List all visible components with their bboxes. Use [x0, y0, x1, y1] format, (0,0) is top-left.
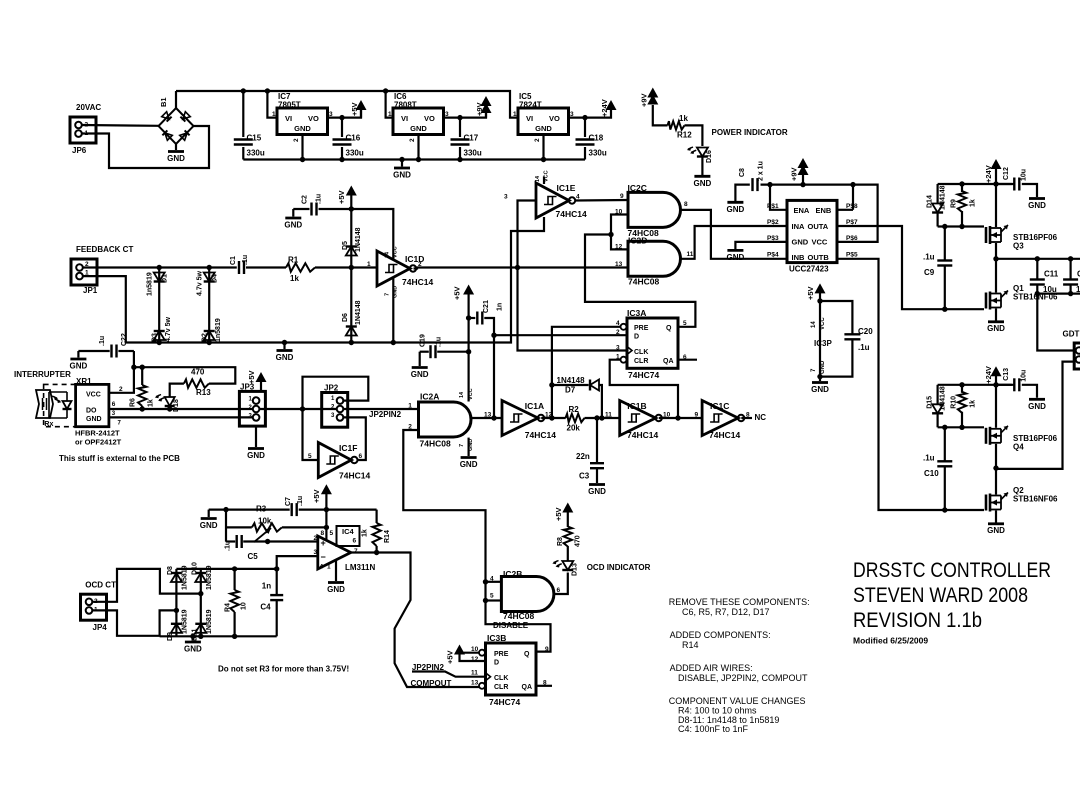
inverter IC1C 74HC14 [702, 401, 738, 436]
svg-text:+24V: +24V [984, 165, 993, 183]
wire IC3A CLK from feedback [518, 268, 628, 351]
wire R1 to IC1D [315, 266, 377, 268]
wire feedback to IC1E input [518, 201, 537, 268]
inverter IC1F 74HC14 [318, 443, 351, 478]
svg-text:VCC: VCC [393, 246, 399, 258]
wire JP6 pin1 to bridge right [82, 126, 209, 168]
power +24V arrow [606, 100, 617, 110]
svg-text:VI: VI [285, 114, 292, 123]
svg-text:VO: VO [549, 114, 560, 123]
svg-text:1n: 1n [262, 582, 271, 591]
svg-text:C11: C11 [1044, 270, 1059, 279]
svg-text:VCC: VCC [544, 170, 550, 182]
svg-text:+5V: +5V [554, 507, 563, 521]
svg-text:C4: C4 [260, 603, 271, 612]
svg-text:1: 1 [331, 396, 335, 402]
svg-text:DO: DO [86, 408, 97, 415]
svg-text:FEEDBACK CT: FEEDBACK CT [76, 245, 133, 254]
wire JP4 pin1 to D8/D9 mid [92, 610, 176, 635]
wire bus to IC6 input [386, 91, 393, 118]
svg-text:GND: GND [327, 585, 345, 594]
svg-text:IC2A: IC2A [420, 392, 439, 402]
diode D9 1N5819 [175, 610, 177, 636]
capacitor C16 330u [341, 118, 343, 137]
power +5V arrow above C2 [350, 193, 352, 209]
svg-text:Q3: Q3 [1013, 242, 1024, 251]
capacitor C4 1n [276, 569, 278, 595]
svg-text:5: 5 [330, 530, 334, 537]
svg-text:VI: VI [401, 114, 408, 123]
capacitor C19 .1u [419, 352, 421, 366]
svg-text:6: 6 [112, 401, 116, 408]
svg-text:IC1F: IC1F [339, 443, 357, 453]
svg-text:GND: GND [294, 124, 311, 133]
svg-text:C5: C5 [248, 552, 259, 561]
svg-text:GND: GND [535, 124, 552, 133]
dashed external box [44, 384, 76, 426]
wire XR1 GND to JP3 [109, 416, 253, 418]
svg-text:8: 8 [321, 530, 325, 537]
svg-text:R10: R10 [951, 396, 958, 409]
wire feedback signal line [83, 266, 237, 268]
svg-text:P$5: P$5 [846, 252, 858, 259]
svg-text:7824T: 7824T [519, 101, 542, 110]
svg-text:1k: 1k [290, 274, 299, 283]
svg-text:74HC14: 74HC14 [556, 209, 587, 219]
svg-text:.1u: .1u [297, 496, 304, 506]
svg-text:74HC14: 74HC14 [627, 430, 658, 440]
regulator IC7 7805T [277, 108, 328, 135]
resistor R2 20k [566, 414, 585, 422]
svg-text:DISABLE, JP2PIN2, COMPOUT: DISABLE, JP2PIN2, COMPOUT [678, 673, 808, 683]
power +9V arrow indicator [647, 88, 658, 98]
svg-text:IC2C: IC2C [628, 183, 647, 193]
svg-text:1: 1 [367, 261, 371, 268]
resistor R10 1k [961, 385, 963, 393]
svg-text:7805T: 7805T [278, 101, 301, 110]
mosfet Q4 STB16PF06 [995, 385, 997, 428]
diode D15 1N4148 [936, 385, 938, 404]
ground comparator rail [208, 510, 210, 517]
svg-text:R8: R8 [557, 537, 564, 546]
svg-text:C8: C8 [739, 168, 746, 177]
svg-text:STB16NF06: STB16NF06 [1013, 495, 1058, 504]
wire IC1D GND pin to rail [392, 278, 394, 343]
svg-text:C2: C2 [302, 195, 309, 204]
mosfet Q2 STB16NF06 [995, 468, 997, 494]
resistor R13 470 [184, 379, 209, 387]
svg-text:OUTA: OUTA [808, 222, 829, 231]
flipflop IC3A 74HC74 [627, 318, 678, 368]
svg-text:10u: 10u [1021, 370, 1028, 382]
svg-text:JP1: JP1 [83, 286, 98, 295]
svg-text:330u: 330u [589, 149, 607, 158]
wire IC6 GND pin [417, 135, 419, 160]
svg-text:9: 9 [620, 193, 624, 200]
svg-text:R4: R4 [225, 603, 232, 612]
svg-text:C4: 100nF to 1nF: C4: 100nF to 1nF [678, 724, 749, 734]
svg-text:D1: D1 [162, 274, 169, 283]
resistor R4 10 [234, 569, 236, 590]
wire IC2B inputs [486, 581, 502, 583]
svg-text:D4: D4 [212, 274, 219, 283]
svg-text:JP4: JP4 [93, 623, 108, 632]
svg-text:74HC14: 74HC14 [402, 277, 433, 287]
svg-text:GND: GND [70, 362, 88, 371]
svg-text:7: 7 [385, 293, 391, 296]
bridge rectifier B1 [159, 108, 194, 144]
svg-text:LM311N: LM311N [345, 563, 375, 572]
svg-text:IC3A: IC3A [627, 308, 646, 318]
inverter IC1E 74HC14 [536, 183, 569, 218]
diode D10 1N5819 [200, 569, 202, 594]
wire mid node A to GDT caps [996, 258, 1080, 260]
svg-text:D: D [634, 334, 639, 341]
wire IC3A D input from C21 node [494, 334, 627, 336]
svg-text:UCC27423: UCC27423 [789, 265, 829, 274]
resistor R9 1k [961, 184, 963, 192]
svg-text:P$4: P$4 [767, 252, 779, 259]
svg-text:IC1A: IC1A [525, 401, 544, 411]
capacitor C17 330u [459, 118, 461, 137]
svg-text:C19: C19 [420, 334, 427, 347]
diode D7 1N4148 [552, 384, 589, 386]
svg-text:Q: Q [524, 651, 530, 658]
wire +24V rail R9 [938, 183, 1015, 185]
svg-text:GND: GND [410, 124, 427, 133]
wire UCC GND pin [735, 242, 787, 249]
diode D6 1N4148 [350, 268, 352, 343]
svg-text:.1u: .1u [242, 255, 249, 265]
svg-text:+: + [321, 538, 326, 548]
resistor R6 1k [141, 367, 143, 385]
wire UCC OUTA to gates [837, 226, 984, 309]
svg-text:D5: D5 [342, 241, 349, 250]
inverter IC1D 74HC14 [377, 251, 410, 286]
svg-text:GND: GND [276, 353, 294, 362]
svg-text:1k: 1k [970, 199, 977, 207]
svg-text:ADDED AIR WIRES:: ADDED AIR WIRES: [670, 663, 753, 673]
svg-text:R3: R3 [256, 505, 267, 514]
svg-text:+5V: +5V [312, 489, 321, 503]
svg-text:GND: GND [811, 385, 829, 394]
svg-text:NC: NC [755, 413, 767, 422]
svg-text:4.7v 5w: 4.7v 5w [165, 317, 172, 342]
svg-text:330u: 330u [346, 149, 364, 158]
svg-text:1N4148: 1N4148 [940, 386, 947, 411]
svg-text:GND: GND [184, 645, 202, 654]
svg-text:GND: GND [468, 439, 474, 451]
wire LM311 output COMPOUT [351, 553, 480, 688]
svg-text:1n5819: 1n5819 [147, 272, 154, 296]
wire IC5 GND pin [542, 135, 544, 160]
mosfet Q3 STB16PF06 [995, 184, 997, 227]
svg-text:INA: INA [792, 222, 806, 231]
flipflop IC3B 74HC74 [486, 643, 537, 695]
wire IC1E VCC stub [543, 177, 545, 185]
svg-text:B1: B1 [159, 97, 168, 107]
wire IC7 output to +5V [328, 110, 362, 118]
svg-text:D13: D13 [572, 563, 579, 576]
power +9V arrow [485, 110, 487, 118]
svg-text:5: 5 [308, 453, 312, 460]
svg-text:R2: R2 [569, 405, 580, 414]
svg-text:1k: 1k [970, 400, 977, 408]
wire IC2C output to UCC INB [681, 210, 788, 259]
wire gate node Q3 [938, 225, 984, 227]
svg-text:C16: C16 [346, 134, 361, 143]
svg-text:R9: R9 [951, 199, 958, 208]
wire OCD rectifier bottom rail [160, 635, 277, 637]
svg-text:CLK: CLK [634, 349, 648, 356]
svg-text:GND: GND [820, 360, 826, 374]
capacitor C9 .1u [944, 227, 946, 261]
svg-text:D7: D7 [565, 386, 576, 395]
svg-text:20k: 20k [567, 424, 581, 433]
svg-text:GND: GND [284, 221, 302, 230]
svg-text:1: 1 [408, 403, 412, 410]
wire R2 to IC1B [585, 417, 620, 419]
svg-text:2 x 1u: 2 x 1u [758, 161, 765, 181]
svg-text:HFBR-2412T: HFBR-2412T [75, 429, 120, 438]
svg-text:+5V: +5V [453, 286, 462, 300]
svg-text:13: 13 [615, 261, 623, 268]
svg-text:10u: 10u [1021, 169, 1028, 181]
capacitor C2 .1u with +5V [292, 209, 294, 217]
svg-text:1k: 1k [679, 114, 688, 123]
capacitor C20 .1u [820, 301, 852, 334]
svg-text:+24V: +24V [984, 366, 993, 384]
led D18 [165, 405, 175, 407]
wire IC2A GND pin [468, 438, 470, 456]
svg-text:CLK: CLK [494, 675, 508, 682]
svg-text:14: 14 [535, 175, 541, 182]
svg-text:+9V: +9V [640, 93, 649, 107]
svg-text:DISABLE: DISABLE [493, 621, 529, 630]
svg-text:R13: R13 [196, 388, 211, 397]
svg-text:.1u: .1u [225, 541, 232, 551]
power +24V arrow R9 [995, 168, 997, 184]
wire JP3 to JP2 signal [259, 408, 336, 410]
svg-text:IC3B: IC3B [487, 633, 506, 643]
wire FF Q to gate inputs [585, 235, 695, 327]
svg-text:JP2PIN2: JP2PIN2 [369, 410, 402, 419]
svg-text:+5V: +5V [337, 190, 346, 204]
svg-text:IC1C: IC1C [710, 401, 729, 411]
svg-text:10: 10 [241, 602, 248, 610]
wire UCC OUTB to gates [837, 259, 984, 510]
svg-text:C17: C17 [464, 134, 479, 143]
svg-text:.1u: .1u [99, 336, 106, 346]
regulator IC6 7808T [393, 108, 444, 135]
svg-text:COMPONENT VALUE CHANGES: COMPONENT VALUE CHANGES [669, 696, 806, 706]
svg-text:8: 8 [684, 201, 688, 208]
svg-text:D16: D16 [706, 150, 713, 163]
svg-text:CLR: CLR [494, 684, 508, 691]
ground symbol feedback rail [283, 343, 285, 350]
svg-text:C15: C15 [247, 134, 262, 143]
svg-text:+9V: +9V [790, 167, 799, 181]
and gate IC2A 74HC08 [419, 402, 472, 437]
wire LM311 GND [335, 560, 337, 581]
svg-text:1k: 1k [362, 529, 369, 537]
svg-text:1n: 1n [497, 303, 504, 311]
svg-text:OCD CT: OCD CT [85, 581, 116, 590]
wire IC5 output to +24V [569, 108, 612, 118]
wire JP4 pin2 to D10/D11 mid [92, 569, 201, 602]
diode D2 1n5819 [204, 330, 215, 332]
svg-text:1N4148: 1N4148 [940, 185, 947, 210]
svg-text:+5V: +5V [350, 102, 359, 116]
svg-text:IC3P: IC3P [814, 339, 832, 348]
capacitor C8 2x1u [735, 185, 749, 201]
svg-text:ADDED COMPONENTS:: ADDED COMPONENTS: [670, 630, 771, 640]
svg-text:330u: 330u [464, 149, 482, 158]
svg-text:VO: VO [424, 114, 435, 123]
svg-text:POWER INDICATOR: POWER INDICATOR [712, 128, 788, 137]
svg-text:3: 3 [112, 411, 116, 417]
wire UCC ENA from +9V node [770, 185, 787, 210]
wire IC3B QA stub [536, 685, 552, 687]
resistor R1 1k [286, 263, 315, 271]
ground D16 [694, 175, 710, 178]
svg-text:STEVEN WARD 2008: STEVEN WARD 2008 [853, 583, 1028, 607]
svg-text:11: 11 [471, 670, 478, 677]
svg-text:2: 2 [293, 138, 300, 142]
svg-text:D: D [494, 660, 499, 667]
svg-text:GND: GND [588, 487, 606, 496]
capacitor C15 330u [242, 91, 244, 137]
svg-text:9: 9 [695, 412, 699, 419]
svg-text:Q4: Q4 [1013, 442, 1024, 451]
svg-text:11: 11 [687, 251, 694, 258]
capacitor C3 22n [596, 418, 598, 463]
capacitor C10 .1u [944, 427, 946, 461]
svg-text:74HC14: 74HC14 [709, 430, 740, 440]
wire JP6 pin2 to bridge [82, 124, 159, 127]
wire IC1A out to R2 [541, 417, 566, 419]
svg-text:REVISION 1.1b: REVISION 1.1b [853, 608, 982, 632]
svg-text:1N5819: 1N5819 [206, 565, 213, 590]
svg-text:REMOVE THESE COMPONENTS:: REMOVE THESE COMPONENTS: [669, 597, 810, 607]
resistor R14 1k [376, 510, 378, 523]
svg-text:13: 13 [484, 412, 492, 419]
capacitor C22 .1u [77, 351, 79, 358]
svg-text:GND: GND [727, 205, 745, 214]
wire pull-up rail [134, 367, 235, 383]
svg-text:1n5819: 1n5819 [215, 318, 222, 342]
wire +5V to LM311 pin8 [325, 510, 327, 541]
svg-text:2: 2 [119, 386, 123, 393]
led D13 OCD indicator [562, 569, 573, 571]
svg-text:OCD INDICATOR: OCD INDICATOR [587, 563, 651, 572]
wire OCD rectifier top rail [176, 568, 276, 570]
capacitor C14 10u [1069, 259, 1071, 279]
svg-text:R12: R12 [677, 131, 692, 140]
svg-text:6: 6 [353, 538, 357, 545]
svg-text:GND: GND [987, 324, 1005, 333]
svg-text:C13: C13 [1003, 368, 1010, 381]
svg-text:QA: QA [522, 684, 533, 691]
svg-text:GND: GND [411, 370, 429, 379]
resistor R8 470 [567, 546, 569, 561]
svg-text:GDT: GDT [1063, 330, 1080, 339]
svg-text:14: 14 [811, 321, 817, 328]
svg-text:.1u: .1u [923, 253, 935, 262]
wire bridge top to bus [175, 91, 177, 108]
wire IC3A QA stub [678, 359, 697, 361]
svg-text:.1u: .1u [923, 453, 935, 462]
power +5V arrow OCD [562, 503, 573, 513]
wire XR1 DO to JP3 [109, 408, 253, 410]
diode D5 1N4148 [350, 209, 352, 268]
svg-text:INB: INB [792, 253, 806, 262]
svg-text:Rx: Rx [44, 421, 53, 428]
svg-text:P$2: P$2 [767, 219, 779, 226]
svg-text:Modified 6/25/2009: Modified 6/25/2009 [853, 636, 928, 646]
svg-text:GND: GND [1028, 402, 1046, 411]
svg-text:R1: R1 [288, 256, 299, 265]
diode D3 4.7v 5w [154, 330, 165, 332]
connector JP4 [81, 594, 107, 620]
wire IC1E output to IC2C [575, 199, 628, 202]
svg-text:5: 5 [683, 320, 687, 327]
svg-text:+5V: +5V [806, 286, 815, 300]
diode D1 1n5819 [158, 268, 160, 343]
wire JP2 to IC2A pin1 JP2PIN2 [343, 408, 418, 410]
wire R12 to D16 [685, 125, 703, 146]
svg-text:1: 1 [249, 397, 253, 403]
wire IC1C output NC [741, 417, 752, 419]
wire IC7 GND pin [301, 135, 303, 160]
wire gate node Q4 [938, 426, 984, 428]
capacitor C1 .1u [238, 261, 240, 274]
inverter IC1A 74HC14 [502, 401, 538, 436]
svg-text:C18: C18 [589, 134, 604, 143]
svg-text:1k: 1k [148, 399, 155, 407]
svg-text:+9V: +9V [475, 102, 484, 116]
diode D14 1N4148 [936, 184, 938, 203]
svg-text:C6, R5, R7, D12, D17: C6, R5, R7, D12, D17 [682, 607, 770, 617]
svg-text:C22: C22 [121, 333, 128, 346]
diode D8 1N5819 [175, 569, 177, 611]
ground symbol power bus [401, 160, 403, 167]
svg-text:R6: R6 [130, 398, 137, 407]
power +5V arrow comparator [325, 492, 327, 510]
diode D11 1N5819 [200, 594, 202, 637]
ic IC3P power pins [819, 301, 821, 377]
svg-text:7: 7 [811, 368, 817, 372]
photodiode in XR1 [63, 408, 72, 410]
svg-text:74HC74: 74HC74 [489, 697, 520, 707]
svg-text:GND: GND [727, 253, 745, 262]
svg-text:11: 11 [605, 412, 612, 419]
wire R13 to D18 [170, 384, 184, 397]
svg-text:.1u: .1u [436, 337, 443, 347]
svg-text:470: 470 [575, 535, 582, 547]
svg-text:IC2B: IC2B [503, 569, 522, 579]
capacitor C21 1n [469, 317, 476, 319]
svg-text:3: 3 [331, 413, 335, 419]
svg-text:C12: C12 [1003, 167, 1010, 180]
svg-text:C1: C1 [230, 256, 237, 265]
svg-text:4.7v 5w: 4.7v 5w [197, 271, 204, 296]
svg-text:C20: C20 [858, 327, 873, 336]
power +5V arrow IC3P [819, 291, 821, 301]
svg-text:470: 470 [191, 368, 205, 377]
svg-text:VO: VO [308, 114, 319, 123]
wire IC1B to IC1C [659, 417, 702, 419]
